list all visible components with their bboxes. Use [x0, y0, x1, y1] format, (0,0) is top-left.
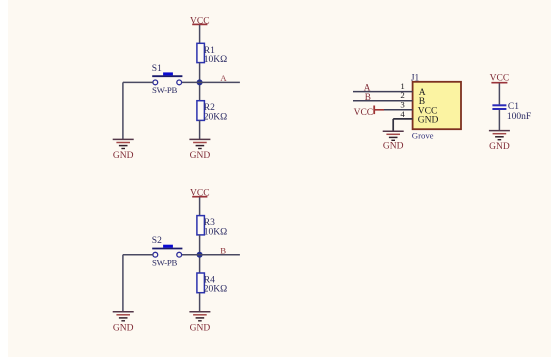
svg-text:SW-PB: SW-PB: [152, 258, 178, 268]
svg-text:B: B: [220, 246, 226, 256]
wire net A to pin 1: [353, 91, 413, 93]
svg-text:Grove: Grove: [412, 131, 434, 141]
ground GND (pin 4): [383, 131, 404, 151]
switch S1 SW-PB: [152, 64, 183, 95]
wire down to GND (left): [122, 255, 124, 312]
svg-text:GND: GND: [113, 323, 134, 333]
svg-text:A: A: [220, 73, 227, 83]
svg-text:GND: GND: [489, 142, 510, 152]
resistor R4: [197, 273, 227, 295]
resistor R2: [197, 101, 227, 123]
power VCC (top of R3): [190, 189, 210, 199]
ground GND (below S2): [113, 312, 134, 334]
wire node B to right: [182, 254, 240, 256]
svg-text:20KΩ: 20KΩ: [204, 285, 227, 295]
ground GND (below S1): [113, 139, 134, 161]
wire VCC to pin 3: [384, 109, 413, 111]
junction node A: [197, 79, 203, 85]
wire VCC to C1: [498, 83, 500, 104]
power VCC (top of R1): [190, 16, 210, 26]
svg-text:10KΩ: 10KΩ: [204, 55, 227, 65]
resistor R3: [197, 216, 227, 238]
wire pin 4 to GND: [393, 119, 412, 131]
svg-text:A: A: [364, 82, 371, 92]
svg-text:100nF: 100nF: [507, 112, 531, 122]
wire net B to pin 2: [353, 100, 413, 102]
svg-text:C1: C1: [508, 102, 519, 112]
connector J1 body: [411, 73, 461, 140]
svg-text:10KΩ: 10KΩ: [204, 227, 227, 237]
svg-text:S1: S1: [152, 64, 162, 74]
wire S2 to left: [123, 254, 153, 256]
wire R2 to GND: [199, 120, 201, 139]
wire down to GND (left): [122, 82, 124, 139]
power VCC (top of C1): [490, 73, 510, 83]
wire VCC to R3: [199, 197, 201, 216]
svg-text:B: B: [365, 92, 371, 102]
svg-text:J1: J1: [411, 73, 420, 83]
svg-text:GND: GND: [383, 142, 404, 152]
svg-text:20KΩ: 20KΩ: [204, 112, 227, 122]
svg-text:GND: GND: [418, 115, 439, 125]
wire VCC to R1: [199, 25, 201, 44]
wire C1 to GND: [498, 110, 500, 130]
wire R1 to node A: [199, 63, 201, 101]
switch S2 SW-PB: [152, 236, 183, 267]
wire R4 to GND: [199, 293, 201, 312]
wire R3 to node B: [199, 235, 201, 273]
resistor R1: [197, 43, 227, 65]
svg-text:GND: GND: [113, 151, 134, 161]
ground GND (below R4): [189, 312, 210, 334]
ground GND (below C1): [489, 131, 510, 152]
svg-text:SW-PB: SW-PB: [152, 85, 178, 95]
capacitor C1: [492, 102, 531, 122]
svg-text:GND: GND: [190, 151, 211, 161]
svg-text:VCC: VCC: [354, 108, 374, 118]
junction node B: [197, 252, 203, 258]
wire S1 to left: [123, 81, 153, 83]
svg-text:S2: S2: [152, 236, 162, 246]
wire node A to right: [182, 81, 240, 83]
svg-text:GND: GND: [190, 323, 211, 333]
ground GND (below R2): [189, 139, 210, 161]
power VCC (pin 3): [354, 106, 384, 118]
